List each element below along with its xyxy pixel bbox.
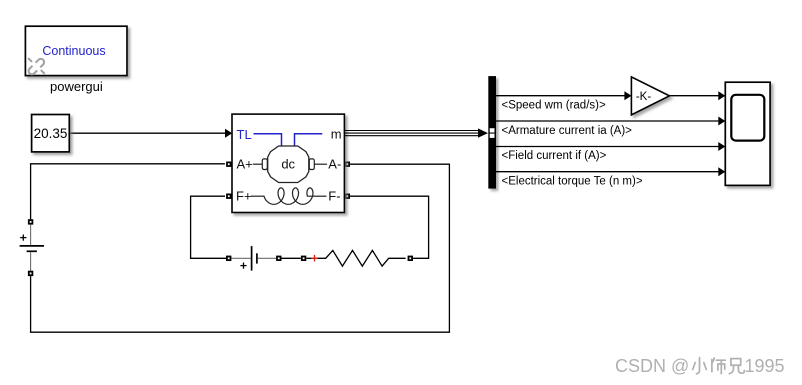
svg-text:A-: A- [328, 157, 341, 172]
svg-text:<Speed wm (rad/s)>: <Speed wm (rad/s)> [502, 99, 606, 111]
svg-text:1995: 1995 [745, 356, 785, 376]
svg-text:F-: F- [328, 189, 340, 204]
svg-text:CSDN @: CSDN @ [615, 356, 689, 376]
svg-text:F+: F+ [236, 189, 252, 204]
svg-text:TL: TL [237, 127, 252, 142]
svg-text:A+: A+ [237, 157, 253, 172]
svg-text:-K-: -K- [636, 91, 652, 103]
svg-text:<Armature current ia (A)>: <Armature current ia (A)> [502, 125, 633, 137]
svg-text:Continuous: Continuous [42, 44, 105, 58]
svg-text:m: m [331, 126, 342, 141]
svg-text:dc: dc [281, 157, 295, 172]
svg-text:<Field current if (A)>: <Field current if (A)> [502, 150, 607, 162]
svg-text:<Electrical torque Te (n m)>: <Electrical torque Te (n m)> [502, 175, 643, 187]
svg-text:20.35: 20.35 [34, 126, 68, 141]
svg-text:powergui: powergui [50, 79, 103, 94]
